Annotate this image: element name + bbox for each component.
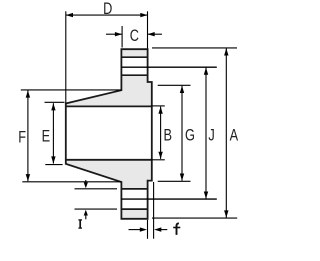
- dimension A: [152, 48, 238, 218]
- dimension C: [106, 26, 162, 48]
- flange ring top shaded band: [121, 49, 147, 57]
- svg-text:G: G: [185, 126, 195, 145]
- svg-text:D: D: [103, 0, 112, 19]
- dimension I: [75, 180, 118, 228]
- svg-text:A: A: [230, 126, 238, 145]
- svg-text:C: C: [130, 26, 139, 45]
- bore bottom edge: [66, 159, 152, 161]
- dimension f: [129, 182, 181, 239]
- svg-text:B: B: [163, 126, 171, 145]
- dimension G: [158, 85, 195, 181]
- bolt hole lower line 2: [121, 208, 147, 210]
- bolt hole upper line 2: [121, 74, 147, 76]
- bore top edge: [66, 105, 152, 107]
- hub upper shaded region: [66, 75, 152, 106]
- dimension B: [151, 106, 172, 160]
- bolt hole lower line 1: [121, 188, 147, 190]
- bolt hole upper line 1: [121, 56, 147, 58]
- flange ring bottom shaded band: [121, 209, 147, 219]
- svg-text:F: F: [18, 128, 26, 147]
- dimension J: [121, 67, 216, 199]
- svg-text:E: E: [42, 127, 50, 146]
- dimension E: [42, 102, 65, 164]
- dimension D: [66, 0, 148, 103]
- hub lower shaded region: [66, 160, 152, 189]
- svg-text:J: J: [208, 126, 214, 145]
- dimension F: [18, 90, 121, 182]
- flange outline: [66, 49, 152, 219]
